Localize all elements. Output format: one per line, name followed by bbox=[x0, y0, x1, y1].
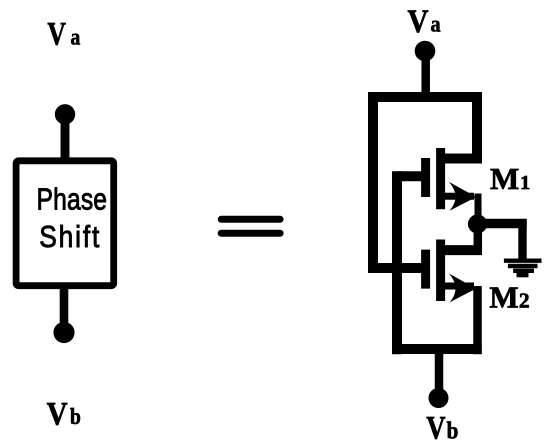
label Vb (right) bbox=[426, 410, 458, 446]
svg-text:V: V bbox=[47, 17, 66, 53]
wire bbox=[435, 349, 444, 398]
wire bbox=[477, 219, 527, 228]
svg-text:a: a bbox=[431, 11, 441, 36]
label "Phase Shift" bbox=[37, 182, 108, 255]
transistor M2 bbox=[426, 240, 482, 303]
wire bbox=[392, 344, 482, 354]
wire bbox=[392, 171, 402, 354]
wire bbox=[397, 171, 426, 181]
svg-text:V: V bbox=[426, 410, 446, 446]
label Va (left) bbox=[47, 17, 80, 53]
terminal node Va (right) bbox=[415, 41, 436, 62]
svg-text:b: b bbox=[447, 417, 459, 444]
wire bbox=[368, 92, 482, 102]
wire bbox=[518, 219, 526, 261]
svg-text:V: V bbox=[408, 2, 429, 39]
svg-text:Phase: Phase bbox=[37, 182, 108, 216]
ground bbox=[504, 261, 542, 275]
transistor M1 bbox=[426, 148, 477, 211]
wire bbox=[373, 263, 426, 273]
phase shift box bbox=[16, 161, 114, 286]
equivalence sign bbox=[221, 219, 280, 233]
label M1 bbox=[490, 161, 530, 196]
wire bbox=[473, 286, 482, 354]
wire bbox=[61, 114, 70, 162]
terminal node Va (left) bbox=[55, 104, 75, 124]
svg-text:a: a bbox=[71, 24, 81, 50]
wire bbox=[60, 286, 69, 333]
node (M1 source / M2 drain / ground) bbox=[468, 214, 487, 233]
wire bbox=[475, 194, 482, 225]
svg-text:V: V bbox=[47, 395, 68, 432]
label M2 bbox=[489, 280, 529, 315]
wire bbox=[368, 92, 378, 273]
label Vb (left) bbox=[47, 395, 81, 432]
svg-text:2: 2 bbox=[519, 289, 530, 313]
svg-text:M: M bbox=[490, 161, 519, 196]
svg-text:1: 1 bbox=[520, 172, 530, 194]
svg-text:b: b bbox=[70, 404, 81, 430]
wire bbox=[421, 51, 430, 102]
svg-text:M: M bbox=[489, 280, 518, 315]
svg-text:Shift: Shift bbox=[39, 220, 101, 254]
label Va (right) bbox=[408, 2, 441, 39]
wire bbox=[472, 92, 482, 164]
terminal node Vb (left) bbox=[53, 322, 74, 343]
terminal node Vb (right) bbox=[429, 388, 449, 408]
wire bbox=[474, 224, 483, 251]
